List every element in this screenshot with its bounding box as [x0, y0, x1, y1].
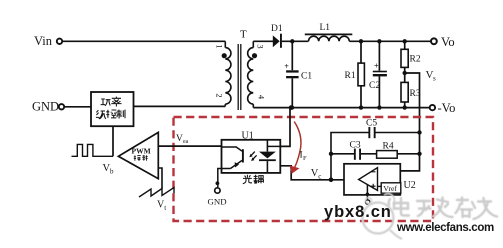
svg-text:F: F: [303, 155, 307, 162]
svg-text:ea: ea: [183, 139, 189, 145]
transformer T secondary winding: [248, 41, 254, 107]
node junction dot on -Vo rail: [289, 105, 294, 110]
sawtooth wave symbol: [139, 188, 174, 198]
svg-text:D1: D1: [271, 24, 283, 34]
wire plus input to Vref: [378, 185, 382, 187]
node junction dot R1 bottom: [359, 105, 363, 109]
svg-text:R1: R1: [345, 71, 356, 81]
svg-text:V: V: [176, 134, 183, 144]
capacitor C3: [354, 149, 356, 160]
svg-text:C5: C5: [366, 118, 377, 128]
wire U2 bottom pin: [366, 185, 368, 200]
wire power block to primary pin2: [134, 105, 226, 107]
svg-text:www.elecfans.com: www.elecfans.com: [396, 222, 494, 234]
svg-text:T: T: [240, 29, 247, 41]
svg-text:GND: GND: [32, 100, 59, 114]
power stage control CJK label 功: [101, 99, 111, 106]
op-amp U2 triangle: [359, 168, 378, 191]
wire diode to L1: [282, 40, 309, 42]
svg-text:C1: C1: [301, 72, 312, 82]
svg-text:+: +: [374, 61, 379, 70]
dashed feedback boundary box: [174, 117, 434, 221]
svg-text:Vref: Vref: [383, 184, 397, 193]
transformer secondary phasing dot: [252, 53, 257, 58]
optocoupler CJK label 光: [243, 175, 252, 184]
resistor R4: [377, 151, 398, 159]
transformer core: [238, 44, 241, 110]
capacitor C1: [291, 41, 293, 70]
wire LED cathode to Vc: [280, 166, 358, 180]
node junction dot L1 right / R1 top: [359, 39, 363, 43]
svg-text:ybx8.cn: ybx8.cn: [324, 203, 392, 221]
svg-text:c: c: [318, 173, 321, 181]
transformer T primary winding: [225, 41, 231, 106]
power stage control CJK label 率: [111, 97, 121, 107]
svg-text:R2: R2: [410, 54, 421, 64]
svg-text:C3: C3: [350, 141, 361, 151]
inductor L1: [305, 33, 353, 35]
node dots compensation rails: [329, 152, 333, 156]
wire compensation left rail: [331, 133, 420, 180]
optocoupler light arrows: [250, 152, 256, 160]
watermark CJK brush text 电子发烧友: [389, 198, 497, 220]
power stage control CJK label 级: [96, 110, 106, 119]
op-amp PWM controller triangle: [118, 132, 158, 178]
wire PWM output Vea: [158, 145, 221, 147]
wire L1 to Vo terminal: [349, 40, 430, 42]
node junction dot R2 top: [403, 39, 407, 43]
resistor R2: [404, 41, 406, 49]
svg-text:+: +: [284, 62, 289, 71]
square wave symbol: [72, 144, 114, 156]
node junction dot R3 bottom: [403, 105, 407, 109]
svg-text:-Vo: -Vo: [438, 101, 456, 115]
svg-text:1: 1: [215, 44, 225, 48]
power stage control CJK label 控: [106, 110, 116, 118]
node -Vo terminal: [430, 105, 435, 110]
wire PWM sawtooth input: [158, 168, 162, 188]
svg-text:Vo: Vo: [441, 35, 455, 49]
svg-text:C2: C2: [369, 81, 380, 91]
wire secondary top to diode: [253, 40, 273, 42]
svg-text:Vin: Vin: [34, 34, 53, 48]
node junction dot C1/top: [290, 39, 294, 43]
diode LED of U1: [266, 140, 268, 152]
ground terminal under U1: [215, 188, 220, 193]
node junction dot C2 bottom: [377, 105, 381, 109]
resistor R3: [401, 82, 408, 102]
svg-text:s: s: [433, 74, 436, 82]
error amplifier U2 box: [344, 164, 400, 195]
wire power block down to PWM node: [112, 126, 114, 156]
svg-text:U2: U2: [404, 180, 416, 191]
svg-text:GND: GND: [208, 196, 227, 206]
block power stage control 功率级控制: [91, 92, 134, 126]
capacitor C5: [368, 127, 370, 138]
svg-text:U1: U1: [242, 130, 254, 141]
svg-text:b: b: [110, 167, 114, 175]
svg-text:t: t: [164, 204, 166, 212]
PWM controller CJK label 控制器: [134, 155, 148, 161]
transistor phototransistor of U1: [222, 147, 243, 169]
wire GND to power-stage block: [65, 106, 91, 108]
power stage control CJK label 制: [116, 110, 125, 119]
wire Vin to transformer primary: [63, 40, 226, 42]
wire compensation mid rail: [331, 153, 420, 155]
wire -Vo rail: [253, 107, 429, 109]
node Vs junction dot: [403, 71, 407, 75]
svg-text:R4: R4: [383, 141, 394, 151]
optocoupler U1 box: [222, 140, 281, 173]
node Vo terminal: [431, 38, 437, 44]
optocoupler CJK label 耦: [254, 175, 264, 184]
node dot above GND: [216, 181, 220, 185]
resistor R1: [360, 41, 362, 63]
node junction dot C2 top: [377, 39, 381, 43]
current arrow IF: [294, 122, 301, 169]
wire Vs to right rail: [378, 73, 420, 171]
transformer primary phasing dot: [222, 53, 227, 58]
reference Vref box: [381, 183, 401, 193]
svg-text:L1: L1: [320, 23, 331, 33]
svg-text:PWM: PWM: [132, 146, 151, 155]
wire LED anode to -Vo rail: [280, 108, 290, 146]
wire emitter to GND: [218, 169, 231, 188]
diode D1: [273, 35, 280, 47]
svg-text:2: 2: [215, 93, 225, 97]
node junction dot C1 bottom: [290, 105, 294, 109]
svg-text:R3: R3: [410, 89, 421, 99]
watermark logo magnifier: [363, 194, 403, 239]
svg-text:3: 3: [256, 44, 266, 48]
capacitor C2: [378, 41, 380, 71]
